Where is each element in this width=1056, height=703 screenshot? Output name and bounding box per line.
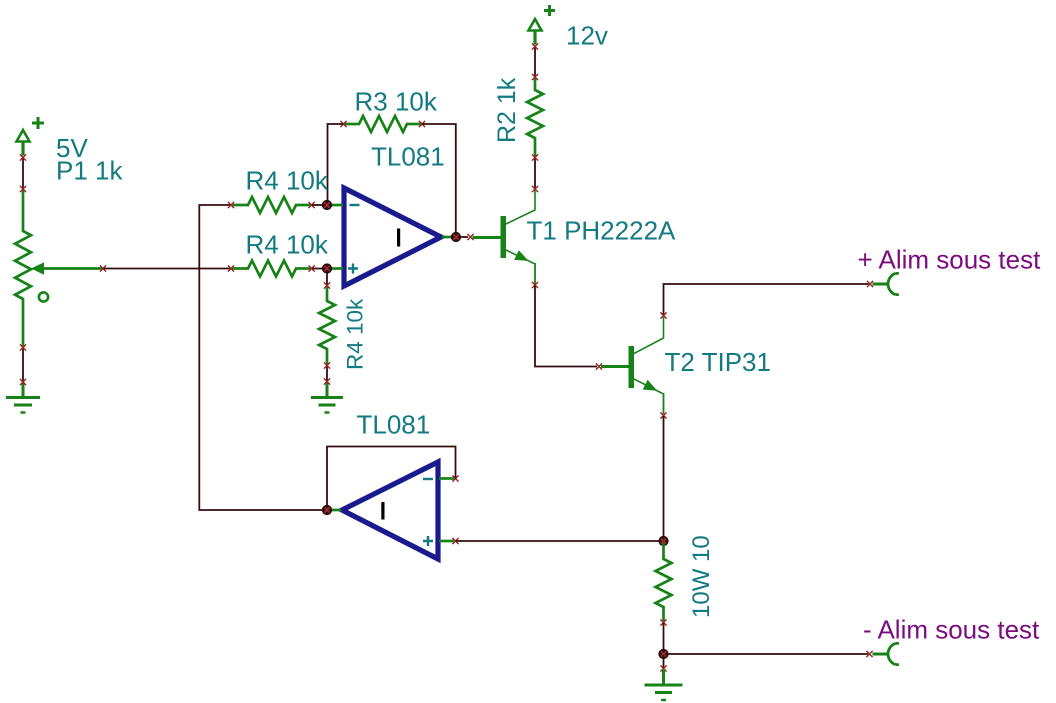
svg-text:R4 10k: R4 10k: [343, 298, 368, 370]
svg-text:TL081: TL081: [357, 410, 431, 440]
svg-text:R2 1k: R2 1k: [493, 77, 521, 143]
svg-text:+ Alim sous test: + Alim sous test: [858, 245, 1042, 275]
svg-text:R4 10k: R4 10k: [246, 166, 329, 196]
svg-text:R3 10k: R3 10k: [355, 87, 438, 117]
svg-text:T1 PH2222A: T1 PH2222A: [527, 216, 677, 246]
svg-text:12v: 12v: [566, 21, 608, 51]
svg-text:P1 1k: P1 1k: [56, 156, 123, 186]
svg-text:TL081: TL081: [371, 142, 445, 172]
svg-text:R4 10k: R4 10k: [246, 230, 329, 260]
svg-text:10W 10: 10W 10: [688, 535, 715, 618]
svg-text:- Alim sous test: - Alim sous test: [863, 615, 1040, 645]
svg-text:T2 TIP31: T2 TIP31: [665, 347, 771, 377]
